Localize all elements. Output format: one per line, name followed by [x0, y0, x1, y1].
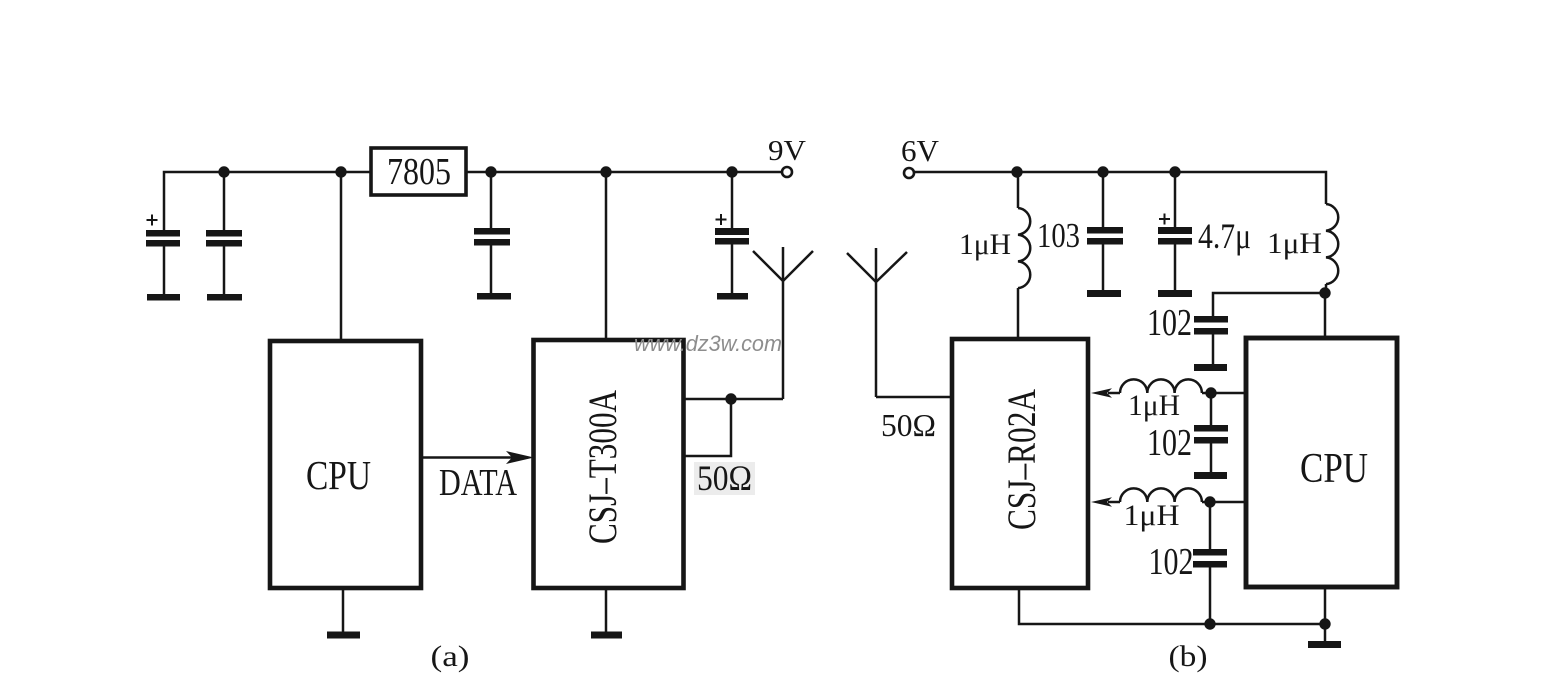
- wire row1 junction to CPU: [1202, 392, 1246, 395]
- svg-text:1μH: 1μH: [1128, 389, 1180, 422]
- inductor L2 1uH (vertical right): [1326, 204, 1338, 293]
- wire bottom ground bus (b): [1019, 588, 1325, 624]
- arrowhead DATA: [506, 451, 534, 464]
- capacitor C5 103: [1087, 172, 1123, 290]
- node dot rail/C5: [1097, 166, 1108, 177]
- CPU box (b): [1246, 338, 1397, 587]
- svg-text:(a): (a): [431, 640, 470, 673]
- C1 plus sign: [147, 215, 158, 226]
- svg-text:50Ω: 50Ω: [697, 458, 752, 498]
- node dot junction rail/C4: [726, 166, 737, 177]
- wire L2 junction to C7: [1213, 293, 1325, 316]
- capacitor C1 (polarized, input filter): [146, 230, 180, 294]
- svg-text:102: 102: [1149, 541, 1194, 583]
- regulator U1 7805 box: [371, 148, 466, 195]
- svg-text:50Ω: 50Ω: [881, 407, 936, 443]
- ground bar below C1: [147, 294, 180, 301]
- node dot RF junction: [725, 393, 736, 404]
- svg-text:103: 103: [1037, 216, 1080, 255]
- C4 plus sign: [716, 214, 727, 225]
- C6 plus sign: [1159, 214, 1170, 225]
- antenna ANT2: [847, 248, 907, 397]
- svg-text:www.dz3w.com: www.dz3w.com: [634, 331, 782, 356]
- ground symbol (b): [1308, 624, 1341, 648]
- inductor L3 1uH (row 1 horizontal): [1108, 379, 1202, 393]
- node dot row1 junction: [1205, 387, 1216, 398]
- svg-text:DATA: DATA: [439, 462, 517, 504]
- ground below CSJ-T300A: [591, 588, 622, 639]
- wire L2 junction to CPU top: [1324, 293, 1327, 338]
- wire top rail (a) left segment: [164, 172, 371, 230]
- wire rail to CPU top: [340, 172, 343, 341]
- ground bar below C7: [1194, 364, 1227, 371]
- svg-text:1μH: 1μH: [1124, 499, 1180, 532]
- transmitter module U2 CSJ-T300A box: [534, 340, 684, 588]
- wire RF out upper (CSJ-T300A to antenna): [684, 398, 784, 401]
- inductor L4 1uH (row 2 horizontal): [1108, 488, 1202, 502]
- node dot junction rail/CPU supply: [335, 166, 346, 177]
- node dot row2 junction: [1204, 496, 1215, 507]
- svg-text:4.7μ: 4.7μ: [1198, 216, 1251, 256]
- svg-text:CPU: CPU: [306, 452, 371, 498]
- wire CPU bottom to ground bus: [1324, 587, 1327, 624]
- ground bar below C6: [1158, 290, 1192, 297]
- receiver module U3 CSJ-R02A box: [952, 339, 1088, 588]
- svg-text:1μH: 1μH: [959, 228, 1011, 261]
- svg-text:6V: 6V: [901, 133, 940, 168]
- wire top rail (a) right segment: [466, 171, 782, 174]
- node dot CPU/ground bus: [1319, 618, 1330, 629]
- wire row2 junction to CPU: [1202, 501, 1246, 504]
- capacitor C4 (polarized, 9V filter): [715, 172, 749, 293]
- label 50ohm (a) background tint: [694, 462, 755, 495]
- svg-text:CSJ–R02A: CSJ–R02A: [999, 389, 1044, 530]
- wire DATA line CPU to CSJ-T300A: [421, 456, 512, 459]
- antenna ANT1: [753, 247, 813, 399]
- ground bar below C8: [1194, 472, 1227, 479]
- capacitor C7 102 (top): [1194, 316, 1228, 364]
- node dot junction 7805 output: [485, 166, 496, 177]
- terminal 9V open circle: [782, 167, 792, 177]
- ground bar below C5: [1087, 290, 1121, 297]
- arrowhead L4 into CSJ-R02A: [1091, 497, 1112, 506]
- svg-text:CPU: CPU: [1300, 446, 1368, 492]
- svg-text:102: 102: [1147, 422, 1192, 464]
- capacitor C6 4.7u (polarized): [1158, 172, 1192, 290]
- node dot rail/L1: [1011, 166, 1022, 177]
- terminal 6V open circle: [904, 168, 914, 178]
- wire rail to CSJ-T300A top: [605, 172, 608, 340]
- node dot junction rail/CSJ-T300A supply: [600, 166, 611, 177]
- wire top rail (b): [914, 172, 1326, 204]
- ground bar below C4: [717, 293, 748, 300]
- svg-text:9V: 9V: [768, 135, 806, 167]
- capacitor C8 102 (middle): [1194, 393, 1228, 472]
- ground bar below C2: [207, 294, 242, 301]
- ground below CPU (a): [327, 588, 360, 639]
- capacitor C2: [206, 172, 242, 294]
- svg-text:(b): (b): [1169, 640, 1208, 673]
- svg-text:7805: 7805: [387, 151, 451, 193]
- node dot L2 bottom junction: [1319, 287, 1330, 298]
- node dot junction rail/C2: [218, 166, 229, 177]
- svg-text:102: 102: [1147, 302, 1192, 344]
- capacitor C9 102 (bottom): [1193, 502, 1227, 624]
- arrowhead L3 into CSJ-R02A: [1091, 388, 1112, 397]
- node dot C9/ground bus: [1204, 618, 1215, 629]
- capacitor C3 (output filter): [474, 172, 510, 293]
- svg-text:1μH: 1μH: [1267, 227, 1322, 260]
- wire RF out loop lower: [684, 399, 732, 456]
- svg-text:CSJ–T300A: CSJ–T300A: [580, 390, 625, 544]
- ground bar below C3: [477, 293, 511, 300]
- node dot rail/C6: [1169, 166, 1180, 177]
- wire antenna to CSJ-R02A: [876, 396, 952, 399]
- CPU box (a): [270, 341, 421, 588]
- inductor L1 1uH (vertical): [1018, 172, 1030, 339]
